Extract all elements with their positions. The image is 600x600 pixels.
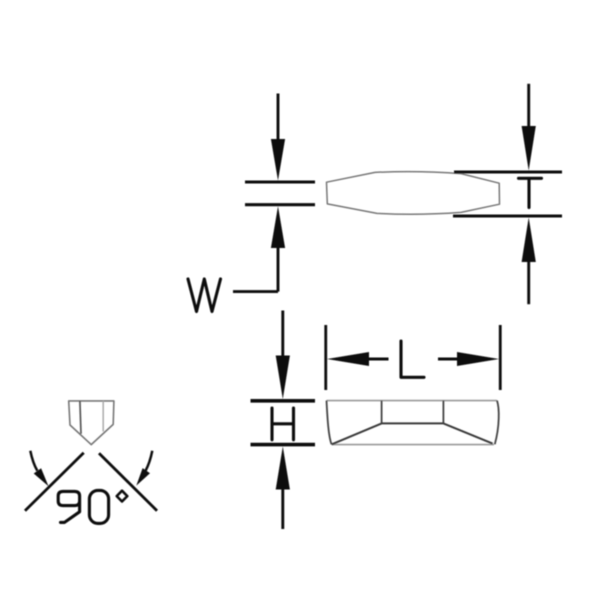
dimension W extension line top [245,180,315,183]
insert front view left edge [327,401,332,445]
dimension W leader line [233,290,278,293]
label degree symbol [117,491,128,502]
dimension H upper arrow tail [281,311,284,357]
insert front view right diagonal [443,423,492,443]
dimension T lower arrow tail [527,262,530,305]
dimension T extension line top [454,170,562,173]
angle left arc [30,451,37,471]
dimension L left line [369,358,389,361]
angle right arrowhead [136,468,150,486]
insert front view top edge [327,400,498,402]
angle left flank line [25,453,84,511]
insert front view left diagonal [332,423,382,444]
insert front view bottom edge [332,444,495,446]
angle right flank line [99,453,157,510]
insert tip profile pentagon [69,401,114,445]
dimension W upper arrow tail [277,94,280,140]
insert top view outline [327,172,500,215]
label T [519,178,542,207]
dimension H extension line top [251,399,316,403]
dimension H lower arrow tail [281,489,284,529]
label L [401,341,424,377]
dimension T upper arrow tail [527,84,530,127]
insert front view inner right vertical [442,401,444,424]
label 90 digit 9 [58,491,79,522]
insert front view right edge [495,401,499,445]
dimension T lower arrowhead [522,218,536,263]
insert front view inner left vertical [381,401,383,424]
dimension W lower arrowhead [271,206,285,248]
insert tip inner right facet line [102,401,104,432]
angle left arrowhead [34,468,49,486]
label W [188,279,221,312]
angle right arc [146,451,153,471]
label 90 digit 0 [89,490,108,523]
label H [272,408,294,440]
insert front view middle horizontal [382,422,444,424]
dimension L right line [438,358,458,361]
dimension L left extension line [324,325,327,390]
dimension L right arrowhead [457,352,499,366]
dimension L left arrowhead [327,352,369,366]
dimension W upper arrowhead [271,139,285,181]
dimension H lower arrowhead [276,447,290,490]
dimension L right extension line [499,325,502,390]
dimension W extension line bottom [245,203,315,206]
insert tip inner left facet line [80,401,81,434]
dimension T upper arrowhead [522,126,536,171]
dimension H upper arrowhead [276,356,290,400]
dimension H extension line bottom [251,443,316,447]
dimension W lower arrow tail [277,248,280,292]
dimension T extension line bottom [453,214,562,217]
